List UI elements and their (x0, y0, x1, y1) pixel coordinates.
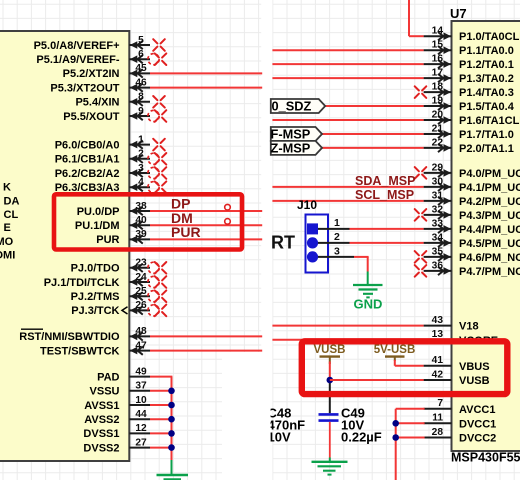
pin 2 P6.1/CB1/A1 (55, 149, 167, 166)
svg-text:49: 49 (135, 366, 147, 377)
svg-text:MO: MO (0, 236, 14, 248)
pin 35 P4.6/PM_NO (415, 246, 520, 264)
ic U6 MSP430 (left block body) (0, 31, 129, 461)
port F-MSP (271, 127, 322, 141)
port 0_SDZ (271, 99, 325, 113)
pin 36 P4.7/PM_NO (415, 260, 520, 278)
wire PAD to GND rail (150, 376, 172, 378)
wire VUSB to pin 42 (330, 379, 424, 381)
junction (168, 388, 175, 395)
svg-text:25: 25 (135, 286, 147, 297)
J10 pin3 stub (318, 256, 354, 258)
pin 39 PUR (96, 229, 150, 246)
svg-text:DVSS1: DVSS1 (83, 428, 119, 440)
wire to pin 14 (vertical from top) (408, 0, 410, 36)
svg-text:E: E (4, 222, 11, 234)
svg-text:45: 45 (135, 63, 147, 74)
svg-text:43: 43 (432, 315, 444, 326)
svg-text:10V: 10V (268, 430, 291, 445)
connector J10 body (306, 215, 329, 273)
wire pin 22 from port Z-MSP (322, 147, 424, 149)
svg-text:DA: DA (4, 195, 20, 207)
svg-text:DVCC2: DVCC2 (459, 433, 496, 445)
svg-text:P6.1/CB1/A1: P6.1/CB1/A1 (55, 154, 120, 166)
pin 37 VSSU (90, 381, 150, 398)
svg-text:PJ.3/TCK: PJ.3/TCK (71, 305, 119, 317)
pin 7 AVCC1 (424, 398, 496, 416)
pin 44 AVSS2 (84, 409, 150, 426)
svg-text:U7: U7 (450, 6, 467, 21)
pin 17 P1.3/TA0.2 (424, 68, 514, 86)
wire VUSB vertical (red above junction) (329, 362, 331, 381)
svg-text:24: 24 (135, 272, 147, 283)
pin 16 P1.2/TA0.1 (424, 54, 514, 72)
junction DVCC1 (392, 420, 399, 427)
svg-text:12: 12 (135, 423, 147, 434)
svg-text:23: 23 (135, 258, 147, 269)
pin 30 P4.1/PM_UC (424, 176, 520, 194)
svg-text:8: 8 (138, 92, 144, 103)
svg-text:CL: CL (4, 209, 19, 221)
wire J10.2 to pin 34 (350, 242, 424, 244)
junction (168, 416, 175, 423)
wire AVSS2 to GND rail (150, 418, 172, 420)
svg-text:31: 31 (432, 190, 444, 201)
pin 28 DVCC2 (424, 427, 497, 445)
svg-text:P4.6/PM_NO: P4.6/PM_NO (459, 252, 520, 264)
svg-text:PAD: PAD (97, 371, 119, 383)
J10 pin 2 (307, 237, 318, 248)
svg-text:F-MSP: F-MSP (271, 126, 311, 141)
svg-text:44: 44 (135, 409, 147, 420)
pin 29 P4.0/PM_UC (415, 162, 520, 180)
svg-text:VBUS: VBUS (459, 361, 490, 373)
wire DVSS1 to GND rail (150, 432, 172, 434)
pin 45 P5.2/XT2IN (63, 63, 150, 80)
svg-text:AVSS1: AVSS1 (84, 400, 119, 412)
wire net DM (150, 224, 262, 226)
svg-text:P1.7/TA1.0: P1.7/TA1.0 (459, 129, 514, 141)
svg-text:SDA_MSP: SDA_MSP (355, 174, 415, 188)
svg-text:VUSB: VUSB (459, 375, 490, 387)
svg-text:5: 5 (138, 35, 144, 46)
pin 49 PAD (97, 366, 150, 383)
svg-text:Z-MSP: Z-MSP (271, 140, 311, 155)
svg-text:15: 15 (432, 40, 444, 51)
svg-text:P1.3/TA0.2: P1.3/TA0.2 (459, 73, 514, 85)
wire net PUR (150, 238, 262, 240)
svg-text:2: 2 (334, 231, 340, 243)
pin 27 DVSS2 (83, 437, 150, 454)
capacitor C49 (319, 414, 339, 420)
svg-text:26: 26 (135, 300, 147, 311)
svg-text:34: 34 (432, 232, 444, 243)
wire P5.2/XT2IN (150, 72, 262, 74)
svg-text:P1.2/TA0.1: P1.2/TA0.1 (459, 59, 514, 71)
svg-text:3: 3 (334, 245, 340, 257)
svg-text:28: 28 (432, 427, 444, 438)
pin 41 VBUS (424, 355, 490, 373)
C48 value labels (cut) (268, 406, 306, 445)
svg-text:MSP430F552x: MSP430F552x (451, 451, 520, 465)
wire DVSS2 to GND rail (150, 447, 172, 449)
junction (168, 402, 175, 409)
svg-text:OMI: OMI (0, 249, 15, 261)
svg-text:PU.0/DP: PU.0/DP (77, 206, 120, 218)
svg-text:20: 20 (432, 109, 444, 120)
svg-text:K: K (3, 182, 11, 194)
svg-text:RT: RT (271, 233, 295, 253)
pin 12 DVSS1 (83, 423, 150, 440)
svg-text:5V-USB: 5V-USB (374, 344, 416, 356)
pin 25 PJ.2/TMS (71, 286, 167, 303)
svg-text:36: 36 (432, 260, 444, 271)
svg-text:2: 2 (138, 149, 144, 160)
pin 32 P4.3/PM_UC (415, 204, 520, 222)
svg-text:AVSS2: AVSS2 (84, 414, 119, 426)
svg-text:21: 21 (432, 123, 444, 134)
svg-text:41: 41 (432, 355, 444, 366)
pin 42 VUSB (424, 369, 490, 387)
wire SCL_MSP to pin 31 (272, 200, 423, 202)
ground (bottom left) (157, 460, 189, 479)
svg-text:1: 1 (138, 134, 144, 145)
svg-text:9: 9 (138, 106, 144, 117)
pin 33 P4.4/PM_UC (424, 218, 520, 236)
power port 5V-USB (374, 344, 416, 361)
pin 23 PJ.0/TDO (71, 258, 167, 275)
svg-text:P1.0/TA0CLK: P1.0/TA0CLK (459, 31, 520, 43)
wire P5.3/XT2OUT (150, 87, 262, 89)
svg-text:37: 37 (135, 381, 147, 392)
svg-text:0_SDZ: 0_SDZ (272, 98, 312, 113)
pin 8 P5.4/XIN (75, 92, 164, 109)
pin 20 P1.6/TA1CLK (424, 109, 520, 127)
highlight box (VUSB VBUS area) (302, 341, 508, 394)
junction (168, 430, 175, 437)
svg-text:V18: V18 (459, 321, 479, 333)
wire VSSU to GND rail (150, 390, 172, 392)
wire AVCC1 (396, 408, 425, 410)
pin 3 P6.2/CB2/A2 (55, 163, 167, 180)
port Z-MSP (271, 141, 322, 155)
svg-text:DVSS2: DVSS2 (83, 442, 119, 454)
svg-text:35: 35 (432, 246, 444, 257)
pin 38 PU.0/DP (77, 201, 150, 218)
wire DVCC2 (396, 437, 425, 439)
wire AVSS1 to GND rail (150, 404, 172, 406)
svg-text:P6.2/CB2/A2: P6.2/CB2/A2 (55, 168, 120, 180)
svg-text:P1.6/TA1CLK: P1.6/TA1CLK (459, 115, 520, 127)
wire net DP (150, 210, 262, 212)
svg-text:P1.1/TA0.0: P1.1/TA0.0 (459, 45, 514, 57)
J10 pin1 stub (318, 228, 350, 230)
svg-text:1: 1 (334, 217, 340, 229)
pin 1 P6.0/CB0/A0 (55, 134, 165, 151)
svg-text:TEST/SBWTCK: TEST/SBWTCK (40, 345, 119, 357)
svg-text:14: 14 (432, 26, 444, 37)
svg-text:RST/NMI/SBWTDIO: RST/NMI/SBWTDIO (19, 331, 120, 343)
svg-text:29: 29 (432, 162, 444, 173)
C49 value labels (341, 406, 382, 445)
svg-text:P1.5/TA0.4: P1.5/TA0.4 (459, 101, 515, 113)
pin 15 P1.1/TA0.0 (424, 40, 514, 58)
svg-text:7: 7 (437, 398, 443, 409)
svg-text:PJ.1/TDI/TCLK: PJ.1/TDI/TCLK (44, 277, 120, 289)
ground (C49) (312, 458, 348, 475)
svg-text:VSSU: VSSU (90, 386, 120, 398)
svg-text:P4.0/PM_UC: P4.0/PM_UC (459, 168, 520, 180)
svg-text:P2.0/TA1.1: P2.0/TA1.1 (459, 143, 514, 155)
svg-text:P4.7/PM_NO: P4.7/PM_NO (459, 266, 520, 278)
svg-text:0.22µF: 0.22µF (341, 430, 382, 445)
svg-text:P5.0/A8/VEREF+: P5.0/A8/VEREF+ (34, 40, 120, 52)
svg-text:P5.1/A9/VEREF-: P5.1/A9/VEREF- (36, 54, 119, 66)
pin 43 V18 (424, 315, 479, 333)
ic U7 MSP430F55xx (right block body) (452, 21, 520, 451)
wire J10.1 to pin 33 (350, 228, 424, 230)
svg-text:48: 48 (135, 326, 147, 337)
svg-text:22: 22 (432, 137, 444, 148)
power port VUSB (314, 344, 346, 364)
wire pin 19 from port SDZ (325, 105, 424, 107)
svg-text:47: 47 (135, 340, 147, 351)
highlight box (PU.0/DP PU.1/DM PUR) (54, 194, 242, 249)
svg-text:PJ.2/TMS: PJ.2/TMS (71, 291, 120, 303)
ground (J10) (353, 272, 383, 312)
pin 14 P1.0/TA0CLK (424, 26, 520, 44)
pin 26 PJ.3/TCK (71, 300, 166, 317)
pin 19 P1.5/TA0.4 (424, 95, 515, 113)
pin 47 TEST/SBWTCK (40, 340, 150, 357)
svg-text:SCL_MSP: SCL_MSP (355, 188, 414, 202)
svg-text:33: 33 (432, 218, 444, 229)
pin 48 RST/NMI/SBWTDIO (19, 326, 150, 343)
wire C49 to ground (329, 422, 331, 458)
wire 5V-USB to pin 41 (394, 360, 396, 366)
svg-text:P4.1/PM_UC: P4.1/PM_UC (459, 182, 520, 194)
pin 5 P5.0/A8/VEREF+ (34, 35, 165, 52)
wire DVCC1 (396, 422, 425, 424)
svg-text:40: 40 (135, 215, 147, 226)
svg-text:39: 39 (135, 229, 147, 240)
junction VUSB (327, 377, 334, 384)
svg-text:38: 38 (135, 201, 147, 212)
svg-text:16: 16 (432, 54, 444, 65)
svg-text:19: 19 (432, 95, 444, 106)
pin 31 P4.2/PM_UC (424, 190, 520, 208)
pin 6 P5.1/A9/VEREF- (36, 49, 166, 66)
pin 4 P6.3/CB3/A3 (55, 177, 167, 194)
pin 10 AVSS1 (84, 395, 150, 412)
wire pin 17 (272, 77, 423, 79)
svg-text:30: 30 (432, 176, 444, 187)
junction (168, 444, 175, 451)
pin 9 P5.5/XOUT (63, 106, 166, 123)
svg-text:27: 27 (135, 437, 147, 448)
J10 pin 1 (square) (307, 223, 318, 234)
svg-text:P1.4/TA0.3: P1.4/TA0.3 (459, 87, 514, 99)
junction DVCC2 (392, 434, 399, 441)
svg-text:DVCC1: DVCC1 (459, 418, 496, 430)
svg-text:PUR: PUR (171, 224, 201, 240)
wire VCORE (272, 339, 423, 341)
pin 24 PJ.1/TDI/TCLK (44, 272, 167, 289)
svg-text:GND: GND (354, 297, 383, 312)
wire J10.3 to ground (354, 256, 369, 258)
svg-text:AVCC1: AVCC1 (459, 404, 495, 416)
svg-text:VUSB: VUSB (314, 344, 346, 356)
svg-text:10: 10 (135, 395, 147, 406)
svg-text:P5.2/XT2IN: P5.2/XT2IN (63, 68, 120, 80)
no-ERC circle on DP (225, 204, 231, 210)
svg-text:P4.3/PM_UC: P4.3/PM_UC (459, 210, 520, 222)
pin 34 P4.5/PM_UC (424, 232, 520, 250)
pin 18 P1.4/TA0.3 (415, 82, 514, 100)
svg-text:P4.2/PM_UC: P4.2/PM_UC (459, 196, 520, 208)
svg-text:PJ.0/TDO: PJ.0/TDO (71, 263, 120, 275)
svg-text:PUR: PUR (96, 234, 119, 246)
pin 22 P2.0/TA1.1 (424, 137, 514, 155)
svg-text:6: 6 (138, 49, 144, 60)
wire VCC rail vertical (395, 409, 397, 480)
svg-text:46: 46 (135, 77, 147, 88)
wire TEST (150, 350, 262, 352)
J10 pin 3 (307, 251, 318, 262)
svg-text:17: 17 (432, 68, 444, 79)
svg-text:P4.4/PM_UC: P4.4/PM_UC (459, 224, 520, 236)
svg-text:P6.0/CB0/A0: P6.0/CB0/A0 (55, 139, 120, 151)
wire GND rail vertical (171, 377, 173, 462)
svg-text:3: 3 (138, 163, 144, 174)
svg-text:P5.4/XIN: P5.4/XIN (75, 97, 119, 109)
wire SDA_MSP to pin 30 (272, 186, 423, 188)
no-ERC circle on DM (225, 219, 231, 225)
wire pin 21 from port F-MSP (322, 133, 424, 135)
svg-text:P5.3/XT2OUT: P5.3/XT2OUT (50, 82, 119, 94)
svg-text:P5.5/XOUT: P5.5/XOUT (63, 111, 120, 123)
wire RST (150, 335, 262, 337)
J10 pin2 stub (318, 242, 350, 244)
wire pin 15 (272, 49, 423, 51)
svg-text:P4.5/PM_UC: P4.5/PM_UC (459, 238, 520, 250)
wire V18 (272, 325, 423, 327)
svg-text:18: 18 (432, 82, 444, 93)
pin 21 P1.7/TA1.0 (424, 123, 514, 141)
svg-text:PU.1/DM: PU.1/DM (75, 220, 120, 232)
pin 13 VCORE (424, 329, 499, 347)
svg-text:42: 42 (432, 369, 444, 380)
svg-text:4: 4 (138, 177, 144, 188)
pin 46 P5.3/XT2OUT (50, 77, 150, 94)
wire pin 16 (272, 63, 423, 65)
pin 11 DVCC1 (424, 413, 497, 431)
wire pin 20 (272, 119, 423, 121)
svg-text:11: 11 (432, 413, 443, 424)
svg-text:J10: J10 (297, 198, 317, 212)
pin 40 PU.1/DM (75, 215, 150, 232)
svg-text:32: 32 (432, 204, 444, 215)
